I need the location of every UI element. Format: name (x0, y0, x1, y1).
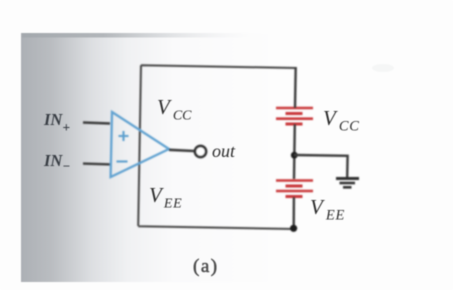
junction node B (290, 225, 297, 232)
ground (336, 179, 359, 188)
node out (195, 146, 206, 157)
wire (293, 197, 296, 229)
wire (169, 150, 194, 151)
wire (293, 124, 296, 179)
wire (294, 155, 348, 177)
svg-text:out: out (212, 141, 236, 161)
wire (294, 67, 297, 108)
op-amp supply box (138, 65, 296, 229)
battery B2 (VEE) (276, 181, 313, 197)
wire (83, 162, 111, 165)
svg-text:(a): (a) (193, 256, 219, 277)
op-amp U1 (111, 112, 169, 177)
junction node A (291, 152, 298, 159)
battery B1 (VCC) (276, 108, 313, 124)
wire (83, 123, 110, 124)
